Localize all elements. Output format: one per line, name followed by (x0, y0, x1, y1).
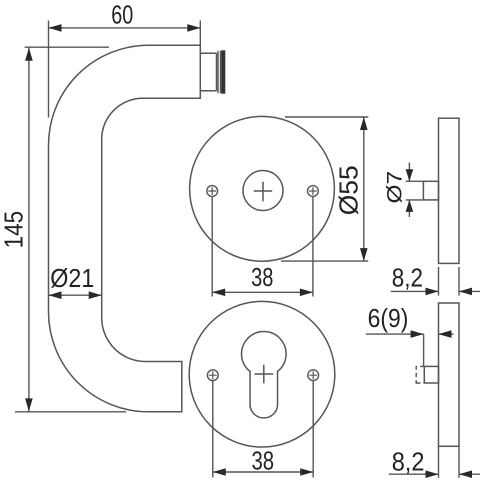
ferrule body (200, 53, 216, 91)
ferrule groove line (217, 51, 219, 93)
svg-text:38: 38 (252, 446, 275, 476)
dim 8,2 top: left extension line (438, 267, 440, 296)
bottom rose: right screw (308, 370, 319, 381)
dim 8,2 bottom: left arrow line (389, 473, 439, 475)
dim 60: left arrowhead (49, 24, 62, 32)
svg-text:Ø7: Ø7 (384, 171, 407, 204)
dim diam7: top arrow (408, 163, 410, 182)
dim 6(9): left arrow line (366, 333, 424, 335)
dim 145: bottom extension line (15, 411, 126, 413)
top rose: big circle (190, 116, 335, 261)
dim 38 top: right extension line (312, 197, 314, 297)
bottom side view: rose plate (439, 303, 460, 446)
bottom side view: cylinder boss solid (424, 366, 438, 383)
top rose: left screw (207, 186, 218, 197)
top rose: center cross (254, 182, 272, 201)
bottom rose: euro profile cylinder hole (242, 332, 287, 418)
svg-text:6(9): 6(9) (368, 303, 409, 333)
dim 38 bottom: dimension line (213, 471, 313, 473)
ferrule cap inner line (219, 51, 221, 93)
svg-text:8,2: 8,2 (392, 446, 425, 476)
dim 38 top: left extension line (211, 197, 213, 297)
dim 38 bottom: left extension line (212, 381, 214, 478)
dim diam21: dimension line with arrows (49, 294, 102, 296)
top rose: spindle circle (243, 171, 283, 211)
top side view: rose plate (439, 118, 460, 263)
dim diam55: dimension line (363, 117, 365, 261)
dim 6(9): extension line down to boss (423, 334, 425, 366)
dim 8,2 bottom: right arrow line (459, 473, 480, 475)
dim diam7: bottom extension line (406, 199, 424, 201)
dim 60: extension line right (199, 21, 201, 45)
svg-text:60: 60 (111, 0, 133, 29)
bottom side view: dashed 9mm boss extension (416, 366, 424, 384)
bottom rose: big circle (189, 301, 335, 447)
svg-text:8,2: 8,2 (392, 263, 423, 293)
dim 8,2 top: left arrow line (391, 290, 439, 292)
top side view: spindle boss (423, 181, 438, 200)
bottom rose: left screw (207, 370, 218, 381)
ferrule end cap (222, 51, 225, 93)
dim 8,2 top: right extension line (458, 267, 460, 296)
dim 8,2 top: right arrow line (459, 290, 480, 292)
dim 38 top: dimension line (212, 291, 313, 293)
dim 8,2 bottom: left extension line (438, 446, 440, 478)
svg-text:Ø21: Ø21 (50, 263, 94, 293)
dim 38 bottom: right extension line (312, 381, 314, 478)
dim 145: top extension line (25, 46, 109, 48)
svg-text:38: 38 (251, 262, 273, 292)
svg-text:Ø55: Ø55 (333, 165, 363, 215)
top rose: right screw (308, 186, 319, 197)
dim diam7: top extension line (406, 180, 424, 182)
dim 145: bottom arrowhead (25, 398, 33, 411)
svg-text:145: 145 (0, 211, 28, 249)
dim 145: dimension line (28, 48, 30, 412)
dim 145: top arrowhead (25, 48, 33, 61)
dim diam7: bottom arrow (408, 200, 410, 217)
dim 8,2 bottom: right extension line (458, 446, 460, 478)
lever handle outline (front view) (49, 45, 201, 412)
dim 6(9): right arrow line (439, 333, 454, 335)
dim 60: extension line left (48, 21, 50, 118)
dim diam55: bottom extension line (281, 260, 368, 262)
dim diam55: top extension line (285, 116, 368, 118)
bottom rose: center cross (255, 365, 274, 384)
dim 60: dimension line (49, 27, 201, 29)
dim 60: right arrowhead (187, 24, 200, 32)
